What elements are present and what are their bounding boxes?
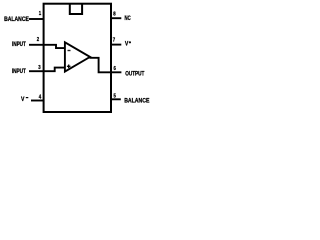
pin 8 lead xyxy=(110,17,121,19)
svg-text:INPUT: INPUT xyxy=(12,41,26,48)
svg-text:OUTPUT: OUTPUT xyxy=(125,70,144,77)
svg-text:1: 1 xyxy=(39,11,41,17)
pin 5 lead xyxy=(110,98,120,100)
pin 3 lead xyxy=(29,70,44,72)
svg-text:2: 2 xyxy=(37,37,39,43)
op-amp A1 (triangle) xyxy=(65,42,90,71)
pin 7 lead xyxy=(110,44,121,46)
svg-text:5: 5 xyxy=(114,94,116,100)
svg-text:4: 4 xyxy=(39,95,41,101)
svg-text:7: 7 xyxy=(113,38,115,44)
IC package U1 (DIP-8 outline) xyxy=(44,4,111,112)
svg-text:V: V xyxy=(125,41,129,48)
svg-text:8: 8 xyxy=(113,12,115,18)
wire op-amp output to pin 6 xyxy=(90,58,111,73)
wire pin2 to inverting input xyxy=(44,45,65,48)
wire pin3 to non-inverting input xyxy=(44,68,65,72)
superscript minus of V- xyxy=(26,97,29,99)
pin 4 lead xyxy=(31,100,44,102)
svg-text:BALANCE: BALANCE xyxy=(4,16,29,23)
pin 6 lead xyxy=(110,71,121,73)
svg-text:BALANCE: BALANCE xyxy=(124,98,149,105)
superscript plus of V+ xyxy=(129,41,131,43)
svg-text:6: 6 xyxy=(114,66,116,72)
pin 1 lead xyxy=(29,18,44,20)
pin 2 lead xyxy=(29,44,44,46)
svg-text:V: V xyxy=(21,96,25,103)
notch (pin-1 end indicator) xyxy=(70,4,82,14)
svg-text:INPUT: INPUT xyxy=(12,68,26,75)
inverting input minus sign xyxy=(68,50,71,52)
non-inverting input plus sign xyxy=(67,65,71,69)
svg-text:NC: NC xyxy=(125,15,131,22)
svg-text:3: 3 xyxy=(38,65,40,71)
